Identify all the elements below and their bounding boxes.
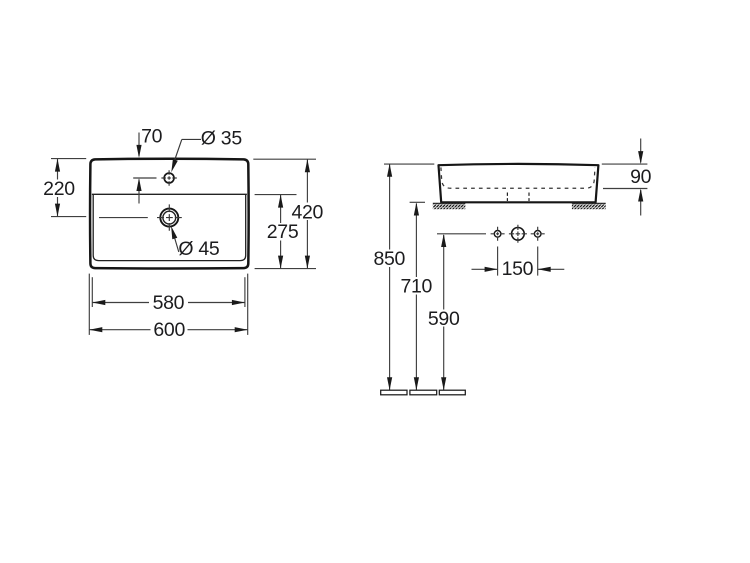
dimension 150 label — [502, 258, 534, 280]
basin outer outline (top view) — [90, 159, 249, 269]
extension line right middle — [255, 194, 297, 196]
extension line 600 right — [247, 274, 249, 335]
faucet hole left (front view) — [494, 231, 501, 238]
svg-text:Ø 45: Ø 45 — [178, 238, 220, 260]
faucet hole (top view) — [164, 173, 174, 183]
centerline at faucet level — [133, 177, 156, 179]
basin outline (front view) — [439, 164, 599, 202]
dimension 710 line and arrows — [414, 203, 419, 391]
basin inner bowl outline (top view) — [93, 194, 246, 260]
dimension 600 line and arrows — [89, 327, 247, 332]
svg-text:710: 710 — [400, 275, 432, 297]
extension line 850 top — [384, 163, 434, 165]
dimension 90 label — [630, 166, 652, 188]
extension line 220 top — [51, 158, 86, 160]
drain dashed lines (front view) — [507, 193, 529, 202]
dimension 580 label — [153, 292, 185, 314]
dimension 420 label — [291, 202, 323, 224]
dimension 580 line and arrows — [92, 300, 245, 305]
svg-text:220: 220 — [43, 178, 75, 200]
dimension 710 label — [400, 275, 432, 297]
faucet holes crosshair horizontal — [491, 233, 545, 235]
svg-text:590: 590 — [428, 308, 460, 330]
floor bar right — [439, 390, 465, 395]
floor bar middle — [410, 390, 437, 395]
faucet hole center (front view) — [512, 228, 525, 241]
svg-text:Ø 35: Ø 35 — [201, 128, 243, 150]
drain hole inner circle (top view) — [163, 211, 176, 224]
extension line 580 right — [244, 277, 246, 307]
extension line 600 left — [88, 274, 90, 335]
extension line 90 top — [602, 163, 648, 165]
basin inner profile dashed (front view) — [441, 167, 595, 188]
dimension 275 label — [267, 221, 299, 243]
svg-text:275: 275 — [267, 221, 299, 243]
extension line 150 left — [497, 247, 499, 276]
centerline to faucet holes — [437, 233, 486, 235]
label Ø45 — [178, 238, 220, 260]
dimension 590 label — [428, 308, 460, 330]
dimension 420 line and arrows — [305, 159, 310, 268]
dimension 70 label — [141, 125, 163, 147]
extension line right top — [253, 158, 316, 160]
faucet holes crosshair verticals — [498, 225, 538, 243]
dimension 600 label — [153, 319, 185, 341]
dimension 220 label — [43, 178, 75, 200]
extension line 150 right — [537, 247, 539, 276]
centerline at drain level — [99, 217, 148, 219]
mounting surface hatch left — [433, 203, 466, 209]
mounting surface hatch right — [572, 203, 606, 209]
dimension 590 line and arrows — [441, 234, 446, 390]
extension tick 710 — [410, 201, 425, 203]
dimension 220 line and arrows — [55, 159, 60, 217]
dimension 90 lower line and arrow — [638, 189, 643, 216]
dimension 850 line and arrows — [387, 164, 392, 390]
drain hole outer circle (top view) — [160, 209, 178, 227]
dimension 150 lines and arrows — [472, 267, 565, 272]
label Ø35 — [201, 128, 243, 150]
basin inner rim line (top view) — [92, 193, 247, 195]
dimension 850 label — [373, 248, 405, 270]
faucet hole crosshair — [161, 170, 176, 185]
svg-text:600: 600 — [153, 319, 185, 341]
extension line 90 bottom — [603, 188, 647, 190]
dimension 275 line and arrows — [278, 195, 283, 269]
dimension 70 lower line and arrow — [136, 178, 141, 204]
extension line 580 left — [91, 277, 93, 307]
dimension 90 upper line and arrow — [638, 139, 643, 165]
extension line 220 bottom — [51, 216, 86, 218]
extension line right bottom — [255, 268, 316, 270]
svg-text:850: 850 — [373, 248, 405, 270]
drain hole crosshair — [157, 204, 182, 230]
faucet hole right (front view) — [534, 231, 541, 238]
svg-text:580: 580 — [153, 292, 185, 314]
dimension 70 upper line and arrow — [136, 133, 141, 158]
leader line for Ø45 — [171, 226, 179, 252]
leader line for Ø35 — [171, 139, 201, 172]
floor bar left — [381, 390, 407, 395]
svg-text:70: 70 — [141, 125, 163, 147]
svg-text:150: 150 — [502, 258, 534, 280]
svg-text:90: 90 — [630, 166, 652, 188]
